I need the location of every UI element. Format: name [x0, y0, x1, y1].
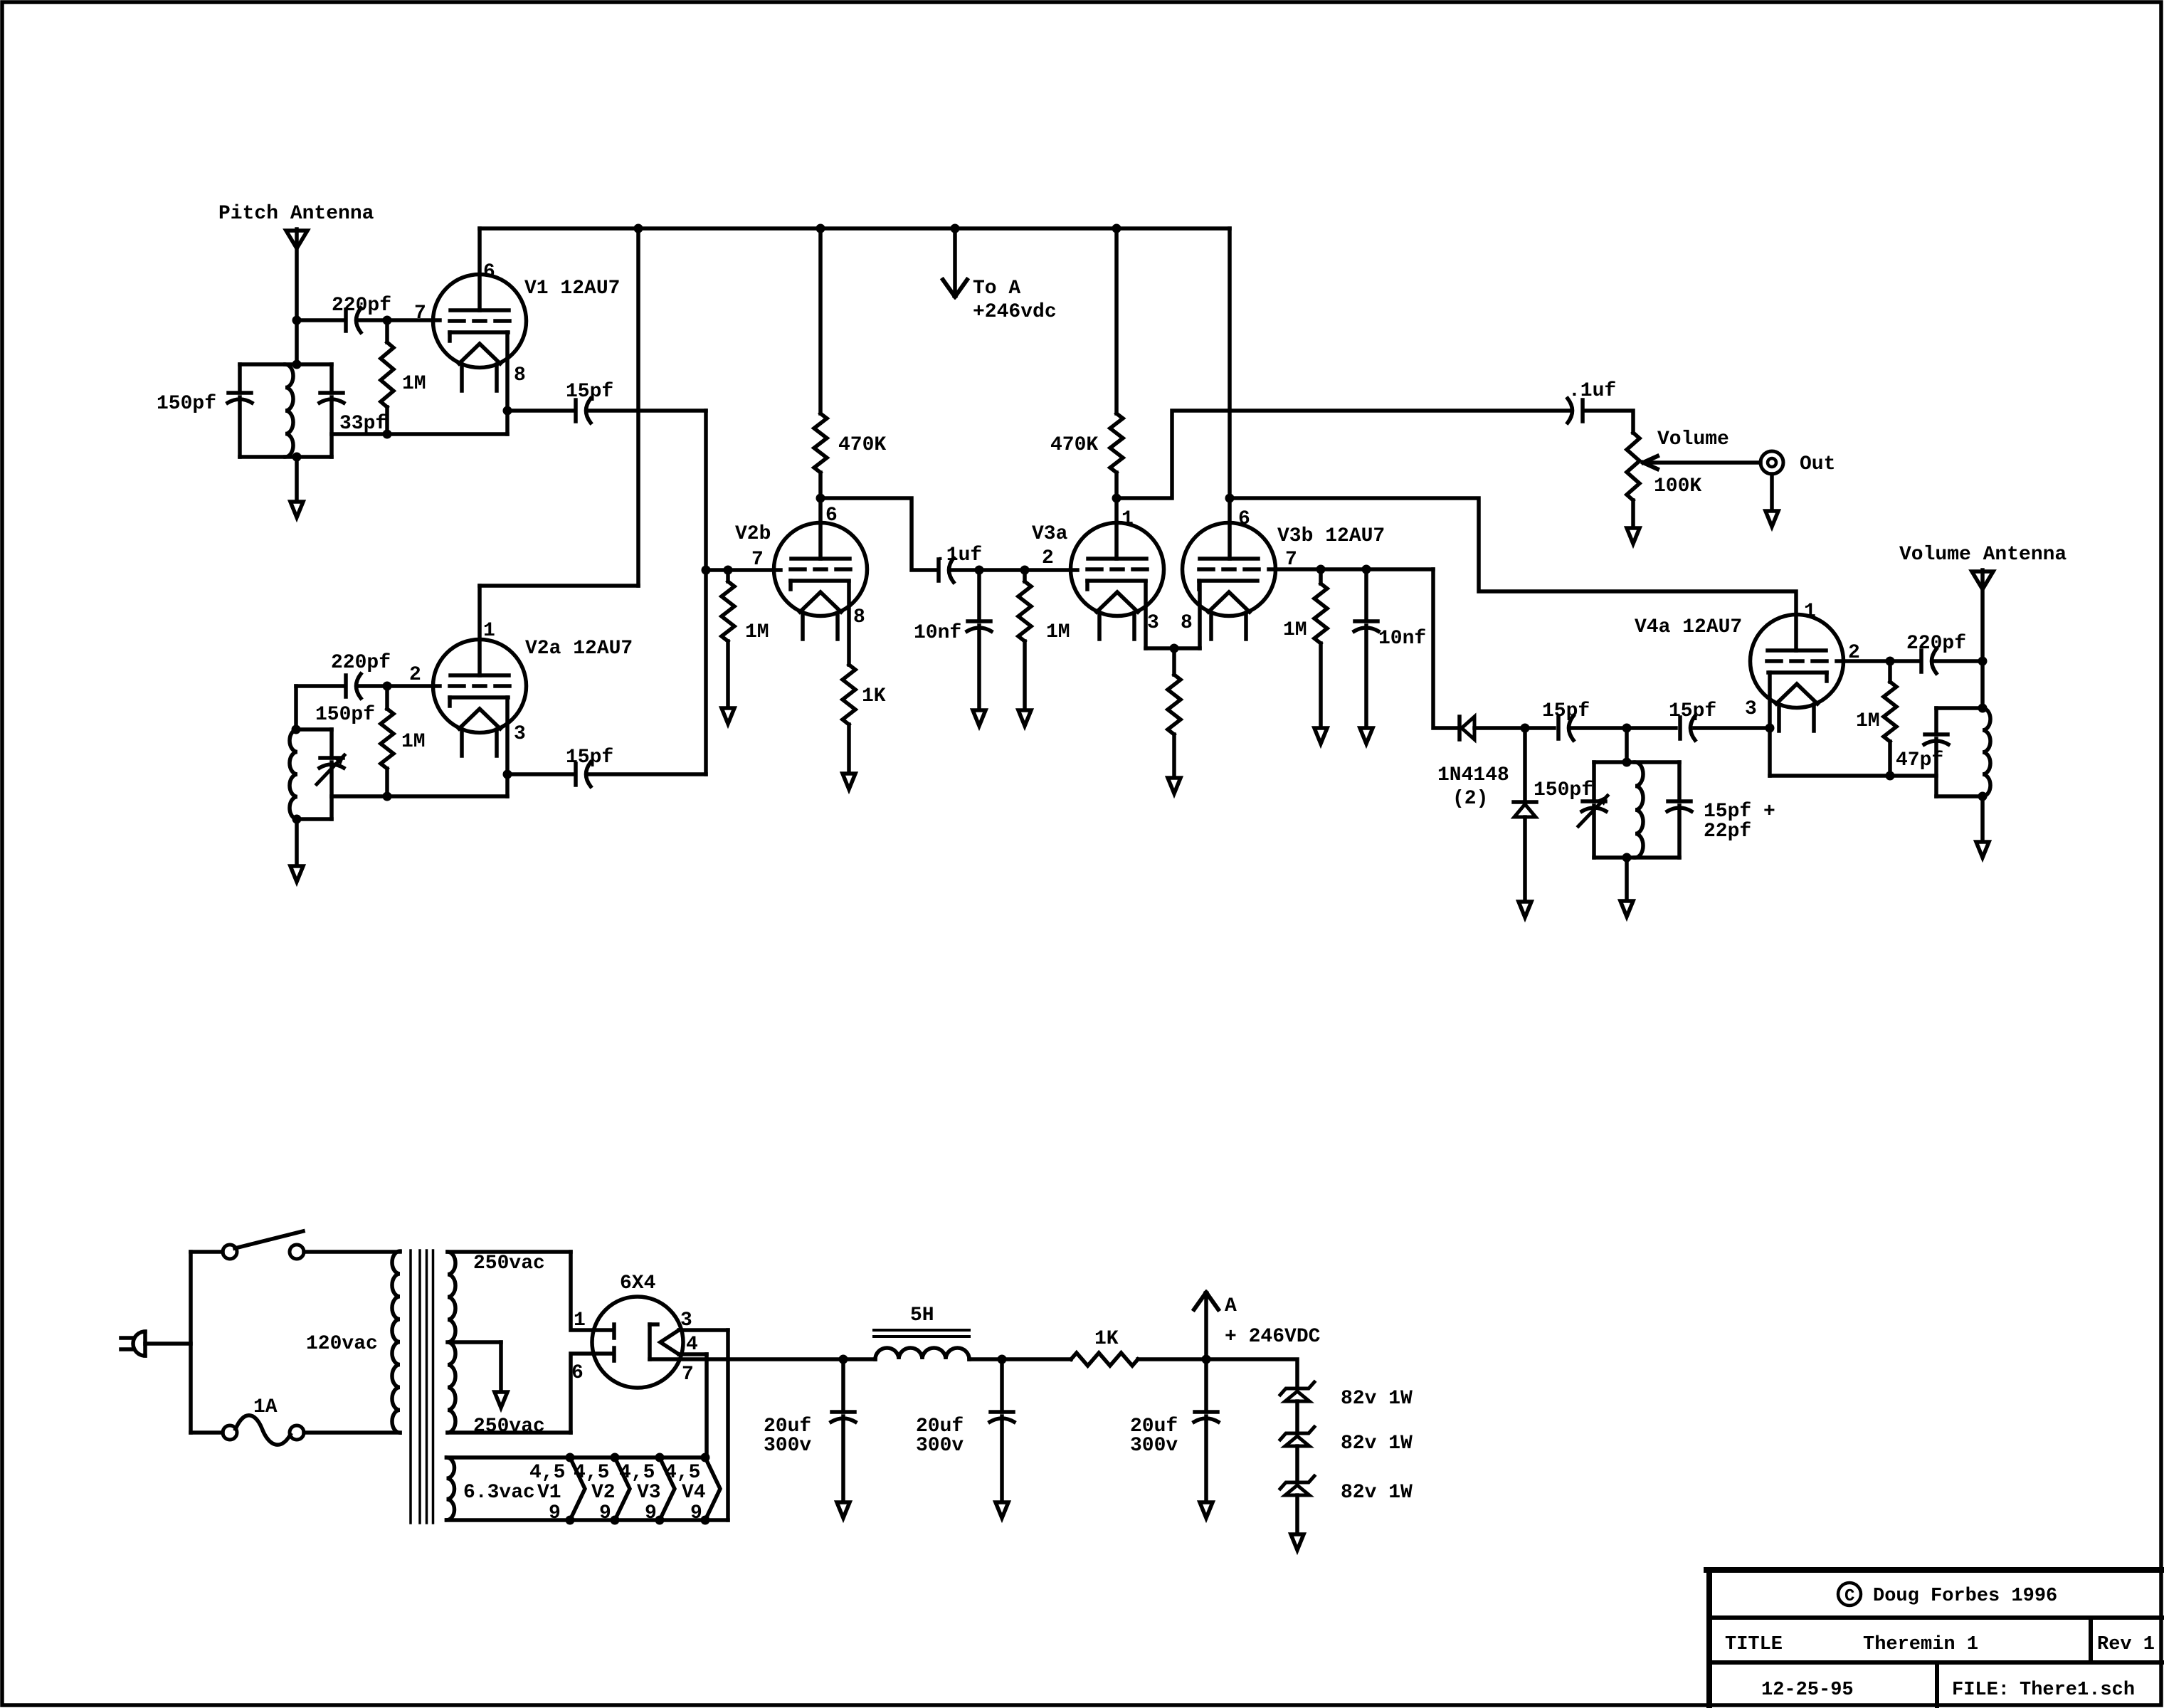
wire heater bottom line	[679, 1354, 707, 1457]
node V2b plate / 470K	[816, 494, 825, 503]
wire atank top rail	[1936, 706, 1983, 710]
svg-text:.1uf: .1uf	[1568, 380, 1616, 402]
label V3b 12AU7	[1277, 525, 1385, 547]
label 1M (V2a)	[401, 731, 426, 753]
svg-text:1K: 1K	[862, 685, 886, 707]
tube rectifier 6X4	[592, 1297, 683, 1388]
label 6.3vac	[463, 1482, 535, 1504]
resistor V3 cathode (unlabeled)	[1168, 648, 1181, 776]
label 20uf (3)	[1130, 1416, 1178, 1438]
svg-text:15pf: 15pf	[1669, 700, 1716, 722]
capacitor C 20uf 300v (3)	[1194, 1359, 1218, 1500]
tube triode V3b 12AU7	[1183, 523, 1276, 640]
wire vtank varcap top lead	[1592, 762, 1596, 801]
wire 220pf left lead (V2a)	[296, 684, 344, 688]
wire primary riser	[189, 1252, 193, 1433]
capacitor C 47pf	[1924, 734, 1948, 744]
node diode junction	[1521, 724, 1530, 733]
capacitor C 15pf (det 1)	[1558, 716, 1573, 740]
node heater bottom V3	[655, 1516, 665, 1525]
label 300v (1)	[764, 1435, 811, 1457]
wire .1uf to volume pot	[1585, 411, 1633, 433]
node V3b plate	[1225, 494, 1235, 503]
label 12-25-95	[1761, 1680, 1854, 1701]
ground cap1	[837, 1502, 850, 1518]
ground shunt diode	[1519, 902, 1531, 917]
wire V2a plate riser pin1	[477, 586, 482, 675]
tube triode V4a 12AU7	[1751, 615, 1844, 732]
pin label 3 (6X4)	[680, 1309, 692, 1332]
heater chevron V4	[705, 1457, 720, 1520]
label 1M (V1)	[402, 373, 426, 395]
pin label 3 (V4a)	[1745, 698, 1757, 720]
capacitor C 150pf variable (vtank)	[1582, 801, 1606, 811]
wire V1 15pf feed	[507, 408, 574, 413]
label 15pf +	[1704, 801, 1775, 823]
capacitor C 150pf variable (tank2)	[320, 758, 344, 768]
svg-text:1M: 1M	[402, 373, 426, 395]
label 150pf (vtank)	[1534, 779, 1593, 801]
ground 10nf (V2b)	[973, 710, 986, 726]
label (2)	[1452, 788, 1488, 810]
svg-text:Volume: Volume	[1657, 428, 1729, 450]
label V4 heater	[682, 1482, 706, 1504]
svg-text:(2): (2)	[1452, 788, 1488, 810]
svg-text:82v 1W: 82v 1W	[1341, 1433, 1413, 1455]
svg-text:V2a 12AU7: V2a 12AU7	[525, 638, 633, 660]
pin label 7 (6X4)	[682, 1364, 694, 1386]
node antenna / 220pf (V4a)	[1978, 657, 1988, 666]
capacitor C 220pf (V2a grid)	[346, 674, 361, 698]
svg-text:470K: 470K	[838, 434, 886, 456]
label 4,5 (V1)	[529, 1462, 565, 1484]
capacitor C 150pf (tank1)	[228, 393, 252, 403]
node B+ rail / 470K right	[1112, 224, 1121, 233]
node heater bottom V4	[701, 1516, 710, 1525]
wire V2b plate riser pin6	[818, 498, 823, 559]
ground tank2	[290, 866, 303, 882]
ground vtank	[1620, 901, 1633, 917]
pin label 7 (V1)	[414, 302, 426, 325]
svg-text:12-25-95: 12-25-95	[1761, 1680, 1854, 1701]
wire V3a cathode lead	[1144, 581, 1148, 648]
title block divider row2	[1709, 1660, 2162, 1665]
node vtank bottom	[1622, 853, 1632, 863]
label 150pf (tank2)	[315, 704, 375, 726]
svg-text:9: 9	[690, 1502, 702, 1524]
wire vtank cap2 bottom lead	[1677, 806, 1682, 858]
ground 1M (V3b)	[1314, 728, 1327, 744]
pin label 7 (V3b)	[1285, 549, 1297, 571]
wire tank2 cap top lead	[329, 729, 334, 758]
svg-text:2: 2	[1042, 547, 1054, 569]
capacitor C 20uf 300v (1)	[831, 1359, 855, 1500]
pin label 2 (V4a)	[1848, 642, 1860, 664]
label 470K (left)	[838, 434, 886, 456]
wire V1 cathode bottom line	[332, 432, 507, 436]
svg-text:V4a 12AU7: V4a 12AU7	[1635, 616, 1742, 638]
node B+ rail / To-A tap	[951, 224, 960, 233]
wire tank1 cap150 top lead	[238, 364, 242, 393]
label 15pf (V2a)	[566, 747, 613, 769]
wire mix bus vertical	[704, 411, 708, 774]
svg-text:1M: 1M	[401, 731, 426, 753]
label 300v (2)	[916, 1435, 964, 1457]
wire V3a out jog	[1117, 411, 1569, 498]
node tank2 top	[292, 725, 301, 734]
wire HV top to pin1	[571, 1252, 612, 1330]
label 10nf (V3b)	[1378, 628, 1426, 650]
svg-text:8: 8	[1181, 612, 1193, 634]
title block rev divider	[2089, 1618, 2093, 1662]
wire To-A drop	[953, 228, 957, 295]
svg-text:6X4: 6X4	[620, 1272, 655, 1295]
svg-text:3: 3	[514, 723, 526, 745]
capacitor C 220pf (V4a)	[1890, 649, 1983, 673]
pin label 1 (6X4)	[574, 1309, 586, 1332]
svg-text:.1uf: .1uf	[934, 544, 982, 566]
pin label 1 (V4a)	[1804, 601, 1816, 623]
wire atank bottom rail	[1936, 794, 1983, 798]
svg-text:8: 8	[853, 606, 865, 628]
wire tank1 cap33 bottom lead	[329, 397, 334, 457]
svg-text:Theremin 1: Theremin 1	[1863, 1634, 1978, 1655]
wire heater bottom rail	[447, 1518, 729, 1522]
antenna Volume Antenna	[1972, 571, 1993, 589]
wire V4a cathode line	[1770, 774, 1936, 778]
wire vtank bottom rail	[1594, 855, 1679, 860]
node 1M bottom (V2a)	[383, 792, 392, 801]
wire vtank cap2 top lead	[1677, 762, 1682, 801]
label V1 heater	[537, 1482, 561, 1504]
wire 15pf to mix bus (V2a)	[588, 772, 706, 776]
svg-text:1: 1	[574, 1309, 586, 1332]
arrow A up	[1194, 1292, 1218, 1309]
wire choke out	[969, 1357, 1002, 1361]
node vtank top	[1622, 758, 1632, 767]
svg-text:1M: 1M	[1046, 621, 1070, 643]
node heater bottom V2	[611, 1516, 620, 1525]
diode D 1N4148 (series)	[1460, 717, 1474, 739]
svg-text:To A: To A	[973, 278, 1020, 300]
node mix bus / V2b grid	[702, 566, 711, 575]
label TITLE	[1725, 1634, 1783, 1655]
pin label 6 (V3b)	[1238, 508, 1250, 530]
capacitor C 33pf (tank1)	[320, 393, 344, 403]
svg-text:8: 8	[514, 364, 526, 386]
wire vtank feed	[1625, 728, 1629, 762]
label .1uf (output)	[1568, 380, 1616, 402]
label Out	[1800, 453, 1835, 475]
node V2b grid / 1M	[724, 566, 733, 575]
wire tank2 bottom rail	[297, 817, 332, 821]
capacitor C 15pf (V1 out)	[576, 399, 591, 423]
node heater top V3	[655, 1453, 665, 1462]
label 82v 1W (2)	[1341, 1433, 1413, 1455]
resistor 1K (filter)	[1071, 1353, 1138, 1366]
node 10nf tap	[975, 566, 984, 575]
label Theremin 1	[1863, 1634, 1978, 1655]
heater chevron V3	[660, 1457, 675, 1520]
ground out jack	[1765, 511, 1778, 527]
svg-text:V4: V4	[682, 1482, 706, 1504]
svg-text:9: 9	[599, 1502, 611, 1524]
pin label 8 (V2b)	[853, 606, 865, 628]
label There1.sch	[2020, 1680, 2135, 1701]
svg-text:7: 7	[682, 1364, 694, 1386]
wire 15pf2 to V4a cathode	[1694, 726, 1770, 730]
wire vtank varcap bottom lead	[1592, 806, 1596, 858]
node A output	[1202, 1355, 1211, 1364]
pin label 6 (V1)	[483, 261, 495, 283]
label 20uf (2)	[916, 1416, 964, 1438]
svg-text:470K: 470K	[1050, 434, 1098, 456]
wire heater top line	[679, 1330, 728, 1520]
ground center tap	[495, 1392, 507, 1408]
label Volume	[1657, 428, 1729, 450]
svg-text:Doug Forbes 1996: Doug Forbes 1996	[1873, 1586, 2057, 1607]
wire 1K to A node	[1138, 1357, 1206, 1361]
wire pitch antenna drop	[295, 229, 299, 364]
wire V1 plate riser pin6	[477, 228, 482, 310]
svg-text:V3b 12AU7: V3b 12AU7	[1277, 525, 1385, 547]
wire z2 to z3	[1295, 1446, 1299, 1482]
wire V1 grid lead pin7	[387, 318, 440, 322]
svg-text:V3: V3	[637, 1482, 661, 1504]
label 9 (V3)	[645, 1502, 657, 1524]
label 4,5 (V3)	[619, 1462, 655, 1484]
svg-text:4,5: 4,5	[574, 1462, 609, 1484]
node heater top V2	[611, 1453, 620, 1462]
svg-text:82v 1W: 82v 1W	[1341, 1388, 1413, 1410]
title block top line	[1706, 1567, 2162, 1573]
wire B+ top rail	[480, 226, 1230, 231]
svg-text:6: 6	[483, 261, 495, 283]
svg-text:1K: 1K	[1094, 1328, 1119, 1350]
label 9 (V2)	[599, 1502, 611, 1524]
svg-text:+ 246VDC: + 246VDC	[1225, 1326, 1321, 1348]
connector AC plug	[121, 1332, 145, 1356]
pin label 2 (V2a)	[409, 664, 421, 686]
ground atank	[1976, 842, 1989, 858]
svg-text:TITLE: TITLE	[1725, 1634, 1783, 1655]
label + 246VDC	[1225, 1326, 1321, 1348]
svg-text:There1.sch: There1.sch	[2020, 1680, 2135, 1701]
capacitor C 220pf (V1 grid)	[346, 308, 361, 332]
wire V3b grid wire	[1269, 567, 1433, 571]
wire tank2 ground lead	[295, 819, 299, 864]
svg-text:1M: 1M	[1856, 710, 1880, 732]
resistor 470K (V3a plate load)	[1110, 228, 1123, 498]
svg-text:A: A	[1225, 1295, 1237, 1317]
label 1M (V3a)	[1046, 621, 1070, 643]
wire z1 to z2	[1295, 1401, 1299, 1433]
wire 15pf to tank tap	[1571, 726, 1627, 730]
svg-text:10nf: 10nf	[1378, 628, 1426, 650]
svg-text:Volume Antenna: Volume Antenna	[1899, 544, 2067, 566]
node tank1 bottom	[292, 453, 302, 462]
wire V3a plate riser pin1	[1114, 498, 1119, 559]
zener diode 82v 1W (3)	[1280, 1476, 1314, 1495]
pin label 8 (V3b)	[1181, 612, 1193, 634]
svg-text:2: 2	[409, 664, 421, 686]
fuse F 1A body	[236, 1416, 290, 1445]
capacitor C 15pf (det 2)	[1680, 716, 1695, 740]
inductor L 5H choke	[875, 1348, 969, 1359]
label V3a	[1032, 523, 1068, 545]
tube triode V2b 12AU7	[774, 523, 867, 640]
fuse terminal right	[290, 1425, 304, 1440]
wire tank2 top rail	[297, 727, 332, 732]
capacitor C 20uf 300v (2)	[990, 1359, 1014, 1500]
label 20uf (1)	[764, 1416, 811, 1438]
label Pitch Antenna	[218, 203, 374, 225]
node atank top	[1978, 704, 1988, 713]
label FILE:	[1952, 1680, 2010, 1701]
svg-text:250vac: 250vac	[473, 1253, 545, 1275]
node B+ rail / V2a plate riser	[634, 224, 643, 233]
wire 15pf to mix bus	[588, 408, 706, 413]
ground zener chain	[1291, 1534, 1304, 1550]
resistor 1M (V4a)	[1884, 661, 1896, 776]
wire antenna to 220pf	[297, 318, 344, 322]
svg-text:220pf: 220pf	[332, 295, 391, 317]
label V2b	[735, 523, 771, 545]
ground tank1	[290, 502, 303, 517]
svg-text:15pf: 15pf	[566, 747, 613, 769]
resistor 1M (V1 grid leak)	[381, 320, 394, 434]
node 1M bottom (V1)	[383, 430, 392, 439]
wire V3b plate riser lower	[1228, 498, 1232, 559]
zener diode 82v 1W (1)	[1280, 1382, 1314, 1401]
wire tank1 ground lead	[295, 457, 299, 500]
wire V2a plate to rail	[636, 228, 640, 586]
svg-text:Out: Out	[1800, 453, 1835, 475]
pin label 3 (V2a)	[514, 723, 526, 745]
inductor L atank coil	[1983, 708, 1990, 796]
wire V2a ant-line drop	[294, 686, 298, 729]
resistor 1M (V2a grid leak)	[381, 686, 394, 796]
svg-text:1M: 1M	[745, 621, 769, 643]
capacitor C .1uf (output)	[1568, 399, 1583, 423]
label A	[1225, 1295, 1237, 1317]
svg-text:1M: 1M	[1283, 619, 1307, 641]
switch terminal left	[223, 1245, 237, 1259]
label 15pf (V1)	[566, 381, 613, 403]
potentiometer Volume 100K	[1627, 433, 1640, 526]
node 1M bottom (V4a)	[1886, 771, 1895, 781]
wire HV bottom lead	[448, 1430, 571, 1435]
wire HV center tap	[448, 1340, 501, 1344]
switch terminal right	[290, 1245, 304, 1259]
svg-text:9: 9	[549, 1502, 561, 1524]
pin label 2 (V3a)	[1042, 547, 1054, 569]
svg-text:V3a: V3a	[1032, 523, 1068, 545]
capacitor C 15pf (V2a out)	[576, 762, 591, 786]
wire out jack ground lead	[1770, 474, 1774, 509]
wire V2a plate jog	[480, 584, 638, 588]
wire vtank top rail	[1594, 760, 1679, 764]
label 300v (3)	[1130, 1435, 1178, 1457]
svg-text:15pf: 15pf	[1542, 700, 1590, 722]
label 9 (V4)	[690, 1502, 702, 1524]
label 15pf (det 2)	[1669, 700, 1716, 722]
svg-text:15pf: 15pf	[566, 381, 613, 403]
svg-text:+246vdc: +246vdc	[973, 301, 1057, 323]
label Volume Antenna	[1899, 544, 2067, 566]
node tank2 bottom	[292, 815, 302, 824]
label 250vac (bottom)	[473, 1416, 545, 1438]
tube triode V3a 12AU7	[1071, 523, 1164, 640]
wire V1 cathode lead	[505, 332, 510, 434]
wire atank ground lead	[1980, 796, 1985, 840]
svg-text:220pf: 220pf	[1906, 633, 1966, 655]
choke core bars	[874, 1330, 969, 1337]
pin label 1 (V2a)	[483, 620, 495, 642]
label V2 heater	[591, 1482, 616, 1504]
heater chevron V1	[570, 1457, 585, 1520]
node V1 cathode / 15pf	[503, 406, 512, 416]
label .1uf (coupling)	[934, 544, 982, 566]
label 100K	[1654, 475, 1701, 497]
svg-text:Rev 1: Rev 1	[2097, 1634, 2155, 1655]
capacitor C .1uf (V2b coupling)	[939, 558, 954, 582]
wire A arrow riser	[1204, 1295, 1208, 1359]
node V2a cathode / 15pf	[503, 770, 512, 779]
svg-text:100K: 100K	[1654, 475, 1701, 497]
svg-text:1A: 1A	[253, 1396, 278, 1418]
label V4a 12AU7	[1635, 616, 1742, 638]
wire 220pf right lead (V2a)	[358, 684, 387, 688]
wire V2a grid wire	[387, 684, 440, 688]
label 1K (filter)	[1094, 1328, 1119, 1350]
wire to zener chain	[1206, 1359, 1297, 1388]
switch blade	[235, 1231, 303, 1248]
label V1 12AU7	[524, 278, 620, 300]
connector Out jack	[1761, 451, 1783, 474]
title block divider row1	[1709, 1615, 2162, 1620]
wire plug to split	[145, 1341, 191, 1346]
inductor transformer HV secondary	[448, 1252, 455, 1433]
arrow variable (vtank)	[1578, 796, 1608, 826]
label 4,5 (V4)	[665, 1462, 700, 1484]
svg-text:10nf: 10nf	[914, 622, 961, 644]
node antenna / 220pf	[292, 316, 302, 325]
svg-text:4,5: 4,5	[529, 1462, 565, 1484]
ground volume pot	[1627, 528, 1640, 544]
svg-text:1: 1	[1121, 508, 1134, 530]
label 220pf (V4a)	[1906, 633, 1966, 655]
label V3 heater	[637, 1482, 661, 1504]
svg-text:6: 6	[571, 1362, 584, 1384]
resistor 1M (V3b grid leak)	[1314, 569, 1327, 726]
svg-text:6.3vac: 6.3vac	[463, 1482, 535, 1504]
wire V3b plate riser	[1228, 228, 1232, 498]
node heater bottom V1	[566, 1516, 575, 1525]
inductor L tank2 coil	[290, 729, 297, 819]
pin label 8 (V1)	[514, 364, 526, 386]
svg-text:7: 7	[414, 302, 426, 325]
node V3a plate / 470K	[1112, 494, 1121, 503]
arrow wiper	[1643, 456, 1657, 469]
inductor transformer primary 120vac	[392, 1251, 400, 1433]
node filter cap1	[839, 1355, 848, 1364]
ground V3 cathode	[1168, 778, 1181, 794]
svg-text:15pf +: 15pf +	[1704, 801, 1775, 823]
svg-text:6: 6	[825, 505, 838, 527]
wire atank cap top lead	[1934, 708, 1938, 734]
label +246vdc	[973, 301, 1057, 323]
